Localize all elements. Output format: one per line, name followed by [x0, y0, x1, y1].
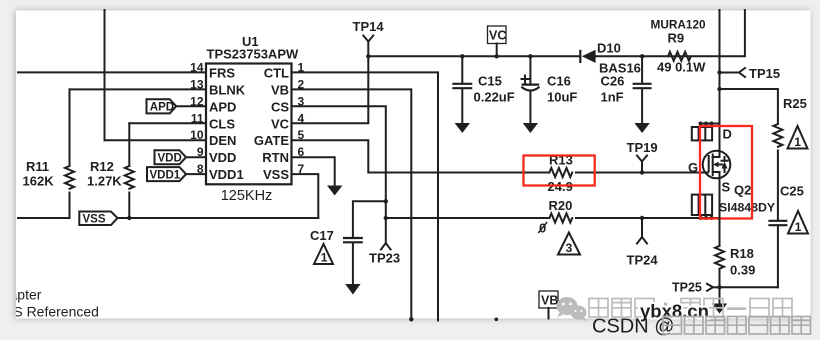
node VB bottom junction: [409, 317, 413, 321]
ground arrow C26: [634, 123, 649, 133]
node VDD1 flag: [147, 167, 206, 181]
watermark wechat icon: [557, 297, 588, 321]
resistor R20: [538, 198, 572, 236]
wire row R20 to Q2 source: [576, 217, 720, 219]
wire CS pin3: [292, 106, 386, 243]
wire rail after diode: [596, 10, 745, 56]
svg-text:VSS: VSS: [83, 214, 106, 226]
svg-text:49 0.1W: 49 0.1W: [657, 60, 706, 75]
capacitor C26: [601, 54, 652, 123]
svg-text:0.22uF: 0.22uF: [474, 90, 515, 105]
wire VB pin2: [292, 89, 412, 320]
svg-text:VB: VB: [271, 82, 289, 97]
wire VSS row to pin7: [118, 217, 319, 219]
node junction R12/VSS: [127, 216, 131, 220]
resistor R9: [651, 18, 707, 75]
capacitor C15: [452, 54, 514, 123]
svg-text:APD: APD: [150, 102, 174, 114]
svg-text:TP15: TP15: [749, 66, 780, 81]
U1 left pin labels: [209, 65, 246, 182]
svg-text:SI4848DY: SI4848DY: [719, 201, 775, 215]
node VSS flag: [79, 212, 117, 226]
svg-text:TP23: TP23: [369, 251, 400, 266]
svg-text:CTL: CTL: [264, 65, 289, 80]
svg-text:FRS: FRS: [209, 65, 235, 80]
wire RTN pin6: [292, 157, 335, 186]
svg-text:1: 1: [795, 220, 802, 234]
wire DEN pin10: [105, 139, 207, 141]
wire TP25 row to C25: [720, 286, 778, 288]
resistor R12: [87, 123, 134, 218]
capacitor C16 polarized: [521, 54, 577, 123]
test point TP15: [717, 66, 780, 81]
svg-text:VDD1: VDD1: [150, 169, 181, 181]
wire BLNK pin13: [70, 88, 207, 90]
resistor R13: [548, 153, 573, 195]
ground arrow RTN: [327, 186, 342, 196]
warning triangle 3 (R20): [558, 233, 580, 256]
capacitor C17: [310, 199, 388, 284]
svg-text:R12: R12: [90, 159, 114, 174]
capacitor C25: [768, 184, 803, 288]
svg-text:VC: VC: [489, 29, 506, 43]
wire VSS pin7 riser: [292, 174, 319, 218]
svg-text:C25: C25: [780, 184, 804, 199]
test point TP24: [627, 216, 659, 268]
svg-text:10uF: 10uF: [547, 90, 577, 105]
wire CS/source row: [386, 217, 550, 219]
svg-text:1: 1: [321, 251, 328, 265]
ground arrow R18: [712, 287, 727, 313]
svg-text:C15: C15: [478, 74, 502, 89]
svg-text:VDD1: VDD1: [209, 167, 244, 182]
wire FRS pin14 to left edge: [18, 71, 206, 73]
svg-text:TPS23753APW: TPS23753APW: [207, 47, 299, 62]
node VDD flag: [155, 150, 207, 164]
svg-text:Q2: Q2: [734, 183, 751, 198]
red highlight box Q2: [700, 126, 752, 219]
svg-text:APD: APD: [209, 99, 236, 114]
svg-text:GATE: GATE: [254, 133, 289, 148]
test point TP23: [369, 216, 400, 266]
svg-text:R25: R25: [783, 96, 807, 111]
svg-text:1nF: 1nF: [601, 90, 624, 105]
wire bottom-left to R11: [18, 217, 70, 219]
svg-text:VDD: VDD: [158, 153, 182, 165]
wire Q2 drain column from top: [719, 10, 721, 151]
svg-text:TP19: TP19: [627, 140, 658, 155]
test point TP14: [353, 19, 385, 56]
svg-text:3: 3: [566, 241, 573, 255]
watermark line 1: [589, 299, 792, 318]
svg-text:VC: VC: [271, 116, 290, 131]
wire top rail: [368, 55, 580, 57]
svg-text:TP25: TP25: [672, 281, 702, 295]
svg-text:1: 1: [794, 135, 801, 149]
ground arrow C15: [455, 123, 470, 133]
ground arrow C17: [345, 284, 360, 295]
svg-text:S: S: [722, 180, 731, 195]
svg-text:R20: R20: [549, 198, 573, 213]
U1 left pin numbers 14-8: [190, 60, 204, 176]
node VB box: [539, 291, 558, 319]
red highlight box R13: [524, 156, 595, 186]
test point TP19: [627, 140, 658, 175]
wire R25 branch: [717, 87, 778, 124]
node VC box: [488, 26, 507, 59]
svg-text:125KHz: 125KHz: [221, 188, 273, 204]
svg-text:R11: R11: [26, 159, 49, 174]
svg-text:SS Referenced: SS Referenced: [4, 304, 99, 320]
node rail junction TP14/VC: [366, 54, 370, 58]
svg-text:VDD: VDD: [209, 150, 236, 165]
svg-text:C17: C17: [310, 228, 334, 243]
svg-text:VB: VB: [541, 294, 558, 308]
warning triangle 1 (C25): [788, 211, 808, 234]
wire CTL pin1: [292, 72, 439, 320]
transistor Q2 SI4848DY: [688, 122, 775, 221]
warning triangle 1 (R25): [788, 126, 808, 149]
resistor R11: [23, 89, 75, 218]
svg-text:DEN: DEN: [209, 133, 236, 148]
svg-text:CS: CS: [271, 99, 289, 114]
svg-text:D: D: [723, 127, 732, 142]
U1 right pin labels: [254, 65, 290, 182]
svg-text:TP24: TP24: [627, 253, 659, 268]
svg-text:BLNK: BLNK: [209, 82, 246, 97]
svg-text:R18: R18: [730, 246, 754, 261]
resistor R18: [715, 218, 755, 287]
warning triangle 1 (C17): [314, 244, 333, 265]
svg-text:C26: C26: [601, 74, 625, 89]
svg-text:D10: D10: [597, 41, 621, 56]
wire GATE pin5 to Q2 gate: [292, 140, 550, 172]
wire VC pin4 riser: [292, 56, 369, 123]
test point TP25: [672, 281, 722, 295]
svg-text:CLS: CLS: [209, 116, 235, 131]
wire CLS pin11: [129, 122, 206, 124]
U1 right pin numbers 1-7: [298, 60, 305, 176]
svg-text:VSS: VSS: [263, 167, 289, 182]
svg-text:RTN: RTN: [262, 150, 289, 165]
resistor R25: [773, 96, 806, 220]
wire DEN vertical to top edge: [104, 10, 106, 140]
op-amp U1 TPS23753APW IC body: [206, 34, 299, 204]
svg-text:C16: C16: [547, 74, 571, 89]
svg-text:0.39: 0.39: [730, 263, 755, 278]
node APD flag: [147, 99, 207, 114]
wire GATE row after R13: [576, 172, 708, 174]
node bottom edge junction: [495, 318, 499, 322]
diode D10 BAS16: [580, 41, 641, 76]
svg-text:162K: 162K: [23, 174, 55, 189]
svg-text:TP14: TP14: [353, 19, 385, 34]
svg-text:MURA120: MURA120: [651, 18, 707, 32]
svg-text:R9: R9: [668, 31, 685, 46]
svg-text:1.27K: 1.27K: [87, 174, 122, 189]
svg-text:G: G: [688, 160, 698, 175]
ground arrow C16: [523, 123, 538, 133]
wire bottom text left: [4, 287, 99, 320]
